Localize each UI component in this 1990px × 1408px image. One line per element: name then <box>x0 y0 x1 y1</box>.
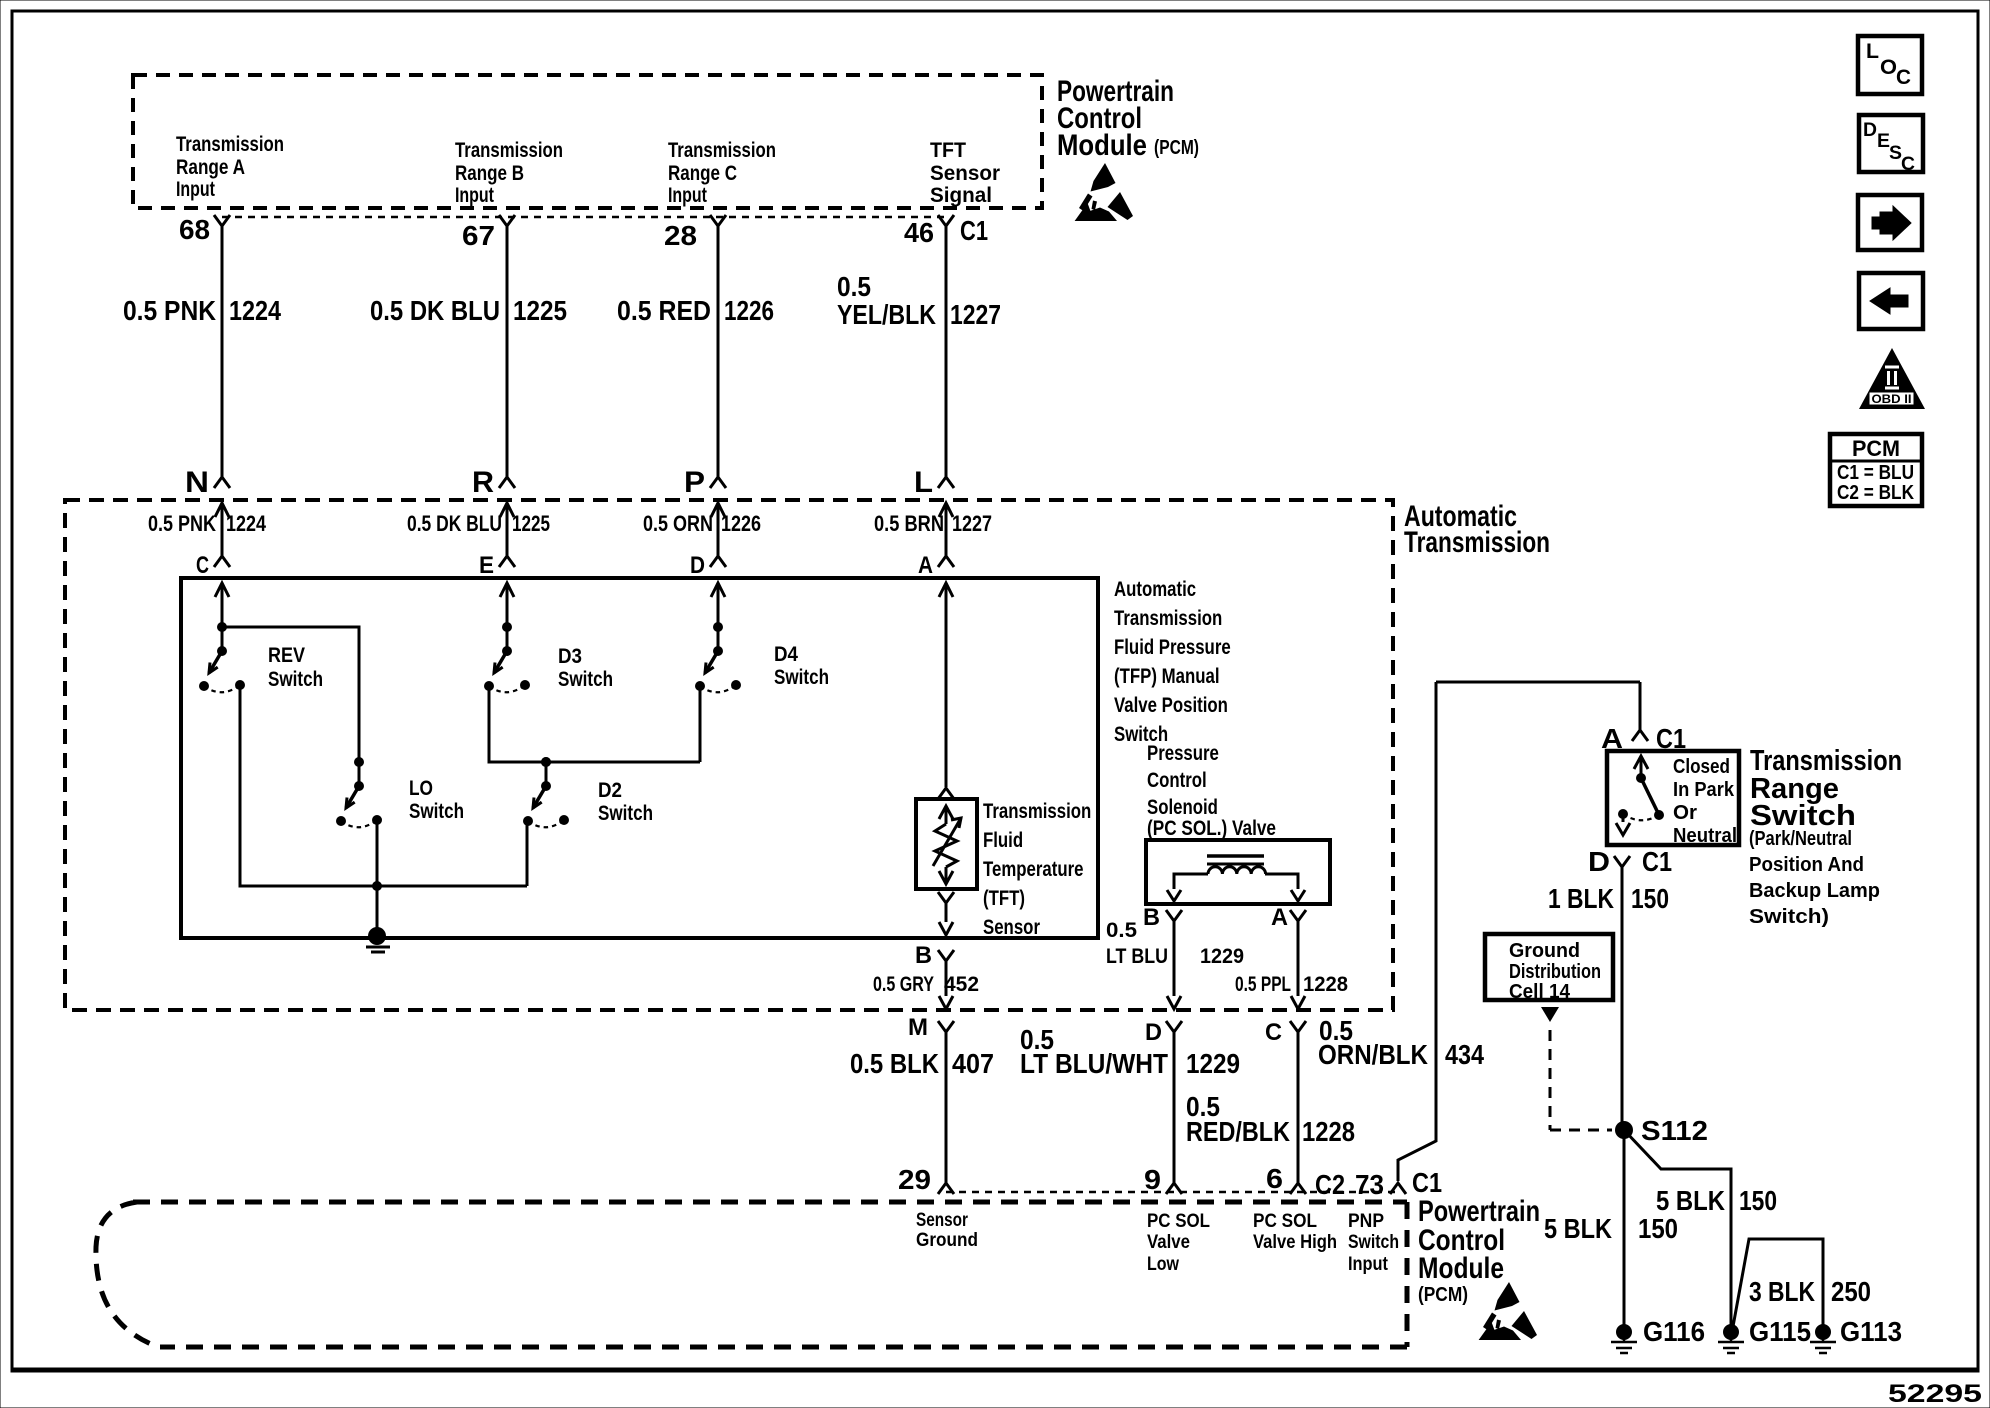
range switch lever <box>1641 778 1659 815</box>
svg-text:46: 46 <box>904 217 934 248</box>
svg-text:D4: D4 <box>774 643 798 666</box>
icon arrow left box <box>1859 273 1923 329</box>
TFP manual valve position switch box <box>181 578 1098 938</box>
svg-text:Range A: Range A <box>176 156 245 179</box>
junction dot common bus <box>372 881 382 891</box>
svg-text:Input: Input <box>176 178 215 201</box>
switch D4 upper junction dot <box>713 622 723 632</box>
switch D4 left contact <box>695 681 705 691</box>
switch D4 lever <box>705 651 718 673</box>
svg-text:Module: Module <box>1057 129 1147 162</box>
pin 28 terminal <box>710 215 726 226</box>
svg-text:Ground: Ground <box>916 1230 978 1251</box>
svg-text:0.5 DK BLU: 0.5 DK BLU <box>407 511 502 536</box>
TFP switch case ground <box>368 927 386 945</box>
svg-text:3 BLK: 3 BLK <box>1749 1276 1815 1307</box>
svg-text:52295: 52295 <box>1888 1380 1982 1408</box>
switch LO lever <box>346 786 359 808</box>
svg-text:TFT: TFT <box>930 139 966 162</box>
wire 5 BLK 150 to G115 <box>1624 1130 1731 1332</box>
wire D into D4 switch <box>717 583 720 651</box>
svg-text:YEL/BLK: YEL/BLK <box>837 299 936 330</box>
ground G115 <box>1723 1324 1739 1340</box>
svg-text:C: C <box>196 552 209 579</box>
switch D3 right contact <box>520 680 530 690</box>
svg-text:G116: G116 <box>1643 1316 1705 1347</box>
svg-text:(PCM): (PCM) <box>1418 1284 1468 1306</box>
wire 0.5 RED 1226 from pin 28 <box>717 226 720 478</box>
svg-text:1224: 1224 <box>226 511 267 536</box>
svg-text:S112: S112 <box>1641 1115 1708 1146</box>
svg-text:Signal: Signal <box>930 184 992 207</box>
svg-text:C1: C1 <box>1412 1167 1442 1198</box>
switch REV travel arc <box>204 685 240 692</box>
svg-text:1224: 1224 <box>229 295 281 326</box>
svg-text:407: 407 <box>952 1048 994 1079</box>
wire 5 BLK 150 to G116 <box>1623 1130 1626 1332</box>
PC SOL solenoid core bars <box>1207 854 1264 858</box>
svg-text:O: O <box>1880 56 1897 79</box>
switch LO pivot dot <box>354 781 364 791</box>
svg-text:0.5 PPL: 0.5 PPL <box>1235 973 1291 996</box>
svg-text:1229: 1229 <box>1186 1048 1240 1079</box>
svg-text:C1 = BLU: C1 = BLU <box>1837 462 1914 484</box>
wire 0.5 PNK 1224 from pin 68 <box>221 226 224 478</box>
junction dot D2 feed <box>541 757 551 767</box>
wire D2 feed <box>545 762 548 786</box>
svg-text:29: 29 <box>898 1164 931 1195</box>
switch D4 right contact <box>731 680 741 690</box>
svg-text:Position And: Position And <box>1749 854 1864 876</box>
svg-text:E: E <box>479 552 494 579</box>
svg-text:(TFT): (TFT) <box>983 887 1025 910</box>
svg-text:Transmission: Transmission <box>668 139 776 162</box>
svg-text:Control: Control <box>1147 769 1207 792</box>
wire 0.5 BLK 407 sensor ground <box>945 1032 948 1183</box>
svg-text:Pressure: Pressure <box>1147 742 1219 765</box>
svg-text:B: B <box>915 942 932 969</box>
wire TFT sensor to pin B <box>938 892 954 903</box>
svg-text:Valve High: Valve High <box>1253 1232 1337 1253</box>
icon LOC box <box>1858 36 1922 94</box>
svg-text:0.5 DK BLU: 0.5 DK BLU <box>370 295 500 326</box>
svg-text:0.5 BLK: 0.5 BLK <box>850 1048 939 1079</box>
svg-text:Fluid: Fluid <box>983 829 1023 852</box>
svg-text:434: 434 <box>1445 1039 1484 1070</box>
svg-text:1226: 1226 <box>724 295 774 326</box>
svg-text:Switch): Switch) <box>1749 906 1829 928</box>
svg-text:Distribution: Distribution <box>1509 961 1601 983</box>
wire REV right contact to common bus <box>240 685 527 886</box>
svg-text:150: 150 <box>1638 1213 1678 1244</box>
svg-text:REV: REV <box>268 644 305 667</box>
switch D3 left contact <box>484 681 494 691</box>
pin 46 terminal <box>938 215 954 226</box>
range switch internal wire and arrow <box>1634 756 1648 769</box>
wire 0.5 LT BLU/WHT 1229 <box>1173 1032 1176 1183</box>
svg-text:Transmission: Transmission <box>1404 526 1550 559</box>
svg-text:Sensor: Sensor <box>930 162 1000 185</box>
wire A to TFT sensor <box>945 583 948 787</box>
wire D4 left contact down to D2 bus <box>699 686 702 762</box>
switch REV right contact <box>235 680 245 690</box>
svg-text:D: D <box>1145 1019 1162 1046</box>
svg-text:Automatic: Automatic <box>1114 578 1196 601</box>
svg-text:Input: Input <box>455 184 494 207</box>
svg-text:C: C <box>1896 66 1911 89</box>
wire 0.5 RED/BLK 1228 <box>1297 1032 1300 1183</box>
pin 29 terminal <box>938 1183 954 1194</box>
Ground Distribution Cell 14 box <box>1485 934 1613 1000</box>
svg-text:Valve: Valve <box>1147 1232 1190 1253</box>
svg-text:Switch: Switch <box>268 668 323 691</box>
svg-text:Backup Lamp: Backup Lamp <box>1749 880 1880 902</box>
range switch travel arc <box>1623 814 1659 820</box>
svg-text:Temperature: Temperature <box>983 858 1084 881</box>
switch D4 pivot dot <box>713 646 723 656</box>
svg-text:452: 452 <box>944 973 979 996</box>
switch REV lever <box>209 651 222 673</box>
svg-text:0.5: 0.5 <box>1106 919 1137 942</box>
wire 0.5 LT BLU 1229 <box>1173 921 1176 996</box>
icon PCM connector color legend <box>1830 434 1922 506</box>
svg-text:1228: 1228 <box>1302 1116 1355 1147</box>
svg-text:B: B <box>1143 904 1160 931</box>
svg-text:D: D <box>690 552 705 579</box>
svg-text:1225: 1225 <box>513 295 567 326</box>
svg-text:Transmission: Transmission <box>176 133 284 156</box>
TFT variable arrow <box>933 818 961 866</box>
PCM C1 connector fine dashed line <box>222 216 946 219</box>
svg-text:C: C <box>1901 154 1915 175</box>
svg-text:1229: 1229 <box>1200 945 1244 968</box>
wire E into D3 switch <box>506 583 509 651</box>
svg-text:5 BLK: 5 BLK <box>1656 1185 1725 1216</box>
wire down to range switch pin A <box>1639 682 1642 730</box>
PCM top dashed outline box <box>133 75 1042 208</box>
wire 0.5 GRY 452 <box>945 961 948 996</box>
ground distribution arrow <box>1541 1007 1559 1022</box>
wire common bus to case ground <box>376 886 379 934</box>
svg-text:1228: 1228 <box>1303 973 1348 996</box>
svg-text:1226: 1226 <box>721 511 761 536</box>
Automatic Transmission dashed outline box <box>65 500 1393 1010</box>
svg-text:P: P <box>684 466 705 499</box>
pin 68 terminal <box>214 215 230 226</box>
svg-text:(PCM): (PCM) <box>1154 137 1199 159</box>
svg-text:0.5 GRY: 0.5 GRY <box>873 973 934 996</box>
svg-text:C1: C1 <box>1642 846 1672 877</box>
ground G116 <box>1616 1324 1632 1340</box>
svg-text:150: 150 <box>1739 1185 1777 1216</box>
svg-text:PCM: PCM <box>1852 436 1900 461</box>
svg-text:Input: Input <box>1348 1254 1389 1275</box>
svg-text:(PC SOL.) Valve: (PC SOL.) Valve <box>1147 817 1276 840</box>
wire C into REV switch <box>221 583 224 651</box>
switch D2 upper junction dot <box>541 757 551 767</box>
svg-text:G115: G115 <box>1749 1316 1811 1347</box>
svg-text:150: 150 <box>1631 883 1669 914</box>
svg-text:In Park: In Park <box>1673 779 1735 801</box>
switch D2 pivot dot <box>541 781 551 791</box>
svg-text:LT BLU: LT BLU <box>1106 945 1168 968</box>
switch REV pivot dot <box>217 646 227 656</box>
PC SOL solenoid coil <box>1208 867 1266 874</box>
wire 0.5 PPL 1228 <box>1297 921 1300 996</box>
branch wire REV junction to LO switch <box>222 627 359 762</box>
svg-text:D: D <box>1588 846 1610 877</box>
svg-text:PNP: PNP <box>1348 1211 1384 1232</box>
svg-text:Or: Or <box>1673 802 1697 824</box>
wire LO feed <box>358 762 361 786</box>
svg-text:Low: Low <box>1147 1254 1179 1275</box>
switch D3 lever <box>494 651 507 673</box>
wire D3 left contact down to D2 bus <box>489 686 700 762</box>
wire 0.5 YEL/BLK 1227 from pin 46 <box>945 226 948 478</box>
pin 9 terminal <box>1166 1183 1182 1194</box>
svg-text:28: 28 <box>664 220 697 251</box>
svg-text:(TFP) Manual: (TFP) Manual <box>1114 665 1220 688</box>
svg-text:A: A <box>1271 904 1288 931</box>
svg-text:C1: C1 <box>960 215 988 246</box>
icon OBD II triangle <box>1859 348 1925 409</box>
svg-text:6: 6 <box>1266 1163 1283 1194</box>
switch D3 upper junction dot <box>502 622 512 632</box>
switch D2 travel arc <box>528 820 564 827</box>
range switch left contact dot <box>1618 809 1628 819</box>
switch LO travel arc <box>341 820 377 827</box>
switch REV upper junction dot <box>217 622 227 632</box>
svg-text:(Park/Neutral: (Park/Neutral <box>1749 828 1852 850</box>
switch D3 pivot dot <box>502 646 512 656</box>
svg-text:Transmission: Transmission <box>983 800 1091 823</box>
svg-text:D2: D2 <box>598 779 622 802</box>
PC SOL valve box <box>1146 840 1330 904</box>
svg-text:1225: 1225 <box>512 511 550 536</box>
svg-text:LO: LO <box>409 777 433 800</box>
pin 6 terminal <box>1290 1183 1306 1194</box>
svg-text:M: M <box>908 1014 928 1041</box>
wire 3 BLK 250 to G113 <box>1732 1239 1823 1332</box>
svg-text:Fluid Pressure: Fluid Pressure <box>1114 636 1231 659</box>
svg-text:ORN/BLK: ORN/BLK <box>1318 1039 1428 1070</box>
svg-text:73: 73 <box>1355 1169 1384 1200</box>
svg-text:1 BLK: 1 BLK <box>1548 883 1614 914</box>
svg-text:L: L <box>1866 40 1879 63</box>
icon arrow right box <box>1858 195 1922 250</box>
svg-text:C2 = BLK: C2 = BLK <box>1837 482 1914 504</box>
ground G113 <box>1815 1324 1831 1340</box>
svg-text:L: L <box>914 466 933 499</box>
svg-text:D3: D3 <box>558 645 582 668</box>
svg-text:Transmission: Transmission <box>1114 607 1222 630</box>
pin 67 terminal <box>499 215 515 226</box>
svg-text:LT BLU/WHT: LT BLU/WHT <box>1020 1048 1168 1079</box>
wire 0.5 DK BLU 1225 from pin 67 <box>506 226 509 478</box>
svg-text:68: 68 <box>179 214 210 245</box>
svg-text:Range B: Range B <box>455 162 524 185</box>
wire PNP signal horizontal run <box>1436 681 1640 684</box>
switch D2 right contact <box>559 815 569 825</box>
svg-text:Solenoid: Solenoid <box>1147 796 1218 819</box>
Transmission Range Switch box <box>1607 751 1739 845</box>
page border bottom emphasis <box>12 1368 1978 1373</box>
svg-text:Switch: Switch <box>598 802 653 825</box>
PCM bottom dashed outline box <box>96 1202 1407 1347</box>
switch D3 travel arc <box>489 685 525 692</box>
svg-text:1227: 1227 <box>952 511 992 536</box>
svg-text:0.5 BRN: 0.5 BRN <box>874 511 944 536</box>
svg-text:Switch: Switch <box>558 668 613 691</box>
svg-text:Switch: Switch <box>1348 1232 1399 1253</box>
svg-text:Transmission: Transmission <box>455 139 563 162</box>
ESD sensitivity symbol top <box>1075 163 1134 221</box>
range switch left contact arrow down <box>1622 814 1625 822</box>
svg-text:0.5 ORN: 0.5 ORN <box>643 511 713 536</box>
svg-text:0.5 RED: 0.5 RED <box>617 295 711 326</box>
TFT sensor internal element <box>939 806 953 819</box>
svg-text:Neutral: Neutral <box>1673 825 1737 847</box>
svg-text:250: 250 <box>1831 1276 1871 1307</box>
wire 1 BLK 150 <box>1621 867 1624 1130</box>
range switch moving contact dot <box>1654 810 1664 820</box>
PC SOL internal lead A <box>1265 874 1298 889</box>
svg-text:N: N <box>185 466 209 499</box>
svg-text:D: D <box>1863 120 1877 141</box>
svg-text:5 BLK: 5 BLK <box>1544 1213 1612 1244</box>
svg-text:OBD II: OBD II <box>1872 392 1912 406</box>
PCM bottom connector fine dashed line <box>946 1191 1398 1194</box>
svg-text:Switch: Switch <box>774 666 829 689</box>
switch D4 travel arc <box>700 685 736 692</box>
svg-text:Valve Position: Valve Position <box>1114 694 1228 717</box>
switch D2 left contact <box>523 816 533 826</box>
icon DESC box <box>1859 115 1923 172</box>
svg-text:Range C: Range C <box>668 162 737 185</box>
svg-text:RED/BLK: RED/BLK <box>1186 1116 1290 1147</box>
svg-text:67: 67 <box>462 220 495 251</box>
svg-text:Ground: Ground <box>1509 940 1580 962</box>
svg-text:C2: C2 <box>1315 1169 1345 1200</box>
wire D2 left contact to common bus <box>526 819 529 886</box>
svg-text:C: C <box>1265 1019 1282 1046</box>
svg-text:G113: G113 <box>1840 1316 1902 1347</box>
svg-text:R: R <box>472 466 494 499</box>
svg-text:0.5: 0.5 <box>837 271 871 302</box>
dashed wire ground distribution to S112 <box>1549 1030 1552 1130</box>
ESD sensitivity symbol bottom <box>1479 1282 1538 1340</box>
svg-text:Sensor: Sensor <box>983 916 1040 939</box>
TFT sensor box <box>916 799 977 889</box>
svg-text:A: A <box>918 552 933 579</box>
svg-text:PC SOL: PC SOL <box>1253 1211 1317 1232</box>
svg-text:Input: Input <box>668 184 707 207</box>
switch LO upper junction dot <box>354 757 364 767</box>
range switch pivot dot <box>1636 773 1646 783</box>
wire LO right contact to common bus <box>376 817 379 886</box>
PC SOL internal lead B <box>1174 874 1208 889</box>
svg-text:Sensor: Sensor <box>916 1210 968 1231</box>
switch LO left contact <box>336 816 346 826</box>
svg-text:Cell 14: Cell 14 <box>1509 981 1571 1003</box>
svg-text:1227: 1227 <box>950 299 1001 330</box>
svg-text:Module: Module <box>1418 1252 1504 1285</box>
svg-text:0.5 PNK: 0.5 PNK <box>148 511 216 536</box>
svg-text:Closed: Closed <box>1673 756 1730 778</box>
switch LO right contact <box>372 815 382 825</box>
svg-text:9: 9 <box>1144 1164 1161 1195</box>
switch REV left contact <box>199 681 209 691</box>
svg-text:0.5 PNK: 0.5 PNK <box>123 295 216 326</box>
svg-text:Switch: Switch <box>409 800 464 823</box>
svg-text:PC SOL: PC SOL <box>1147 1211 1210 1232</box>
TFT sensor terminal from pin A wire <box>938 788 954 799</box>
splice S112 <box>1615 1121 1633 1139</box>
switch D2 lever <box>533 786 546 808</box>
pin 73 terminal connector C2 C1 <box>1390 1183 1406 1194</box>
